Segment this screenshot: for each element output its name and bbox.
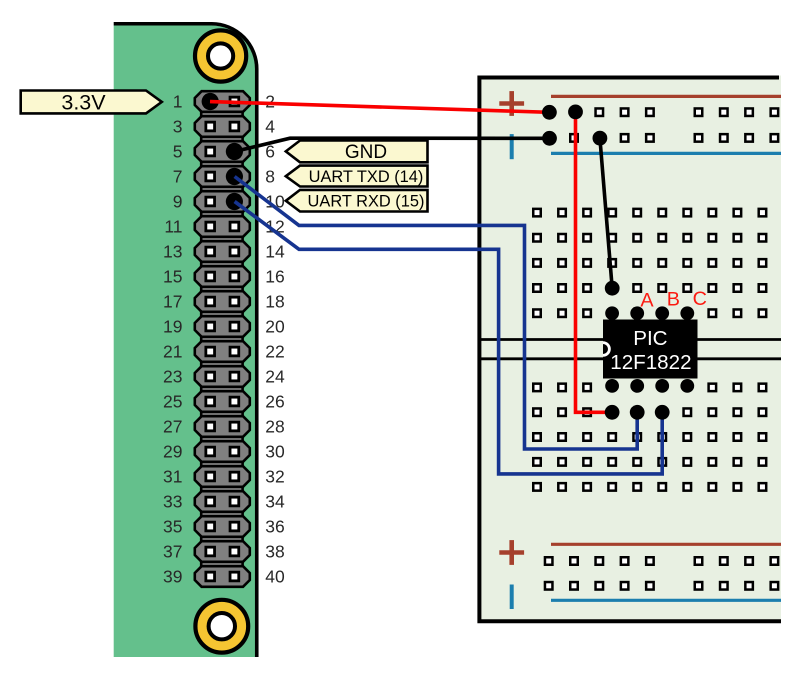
raspberry pi board (114, 25, 257, 657)
svg-text:13: 13 (163, 242, 182, 262)
svg-text:24: 24 (265, 367, 285, 387)
GPIO header row pins 13-14 (195, 241, 250, 262)
GPIO header row pins 37-38 (195, 541, 250, 562)
junction dot blue TXD wire row G (630, 405, 645, 420)
svg-text:1: 1 (173, 92, 183, 112)
GPIO header base strip (201, 95, 242, 582)
wire blue: pi pin10 UART RXD to chip (235, 202, 663, 474)
label flag 3.3V (21, 90, 162, 114)
svg-text:9: 9 (173, 192, 183, 212)
svg-text:C: C (693, 288, 707, 310)
svg-text:22: 22 (265, 342, 284, 362)
svg-text:11: 11 (164, 217, 182, 237)
svg-text:30: 30 (265, 442, 285, 462)
GPIO header row pins 1-2 (195, 91, 250, 112)
svg-text:36: 36 (265, 517, 284, 537)
svg-text:35: 35 (163, 517, 182, 537)
GPIO header row pins 39-40 (195, 566, 250, 587)
header pin 5 (206, 147, 215, 156)
IC chip PIC 12F1822 body (603, 320, 698, 379)
junction dot black jumper top (593, 131, 608, 146)
junction dot black wire at negative rail (542, 131, 557, 146)
GPIO header row pins 9-10 (195, 191, 250, 212)
top negative rail line (551, 152, 781, 155)
header pin 39 (206, 572, 215, 581)
svg-text:16: 16 (265, 267, 284, 287)
header pin 40 (230, 572, 239, 581)
breadboard center divider line lower (479, 357, 781, 360)
GPIO header row pins 15-16 (195, 266, 250, 287)
junction dot red wire at positive rail (542, 105, 557, 120)
header pin 20 (230, 322, 239, 331)
header pin 12 (230, 222, 239, 231)
top rail plus symbol (499, 91, 524, 116)
header pin 29 (206, 447, 215, 456)
svg-text:18: 18 (265, 292, 284, 312)
top positive rail line (551, 95, 781, 98)
wire blue: pi pin8 UART TXD to chip (235, 177, 638, 450)
header pin 23 (206, 372, 215, 381)
svg-text:2: 2 (265, 92, 275, 112)
chip top pin 2 (630, 306, 644, 320)
header pin 32 (230, 472, 239, 481)
header pin 15 (206, 272, 215, 281)
svg-text:15: 15 (163, 267, 182, 287)
label flag UART RXD (15) (286, 190, 428, 212)
breadboard body (477, 76, 781, 623)
svg-text:12F1822: 12F1822 (610, 351, 691, 374)
header pin 4 (230, 122, 239, 131)
header pin 11 (206, 222, 215, 231)
header pin 21 (206, 347, 215, 356)
svg-text:37: 37 (163, 542, 182, 562)
GPIO header row pins 5-6 (195, 141, 250, 162)
svg-text:33: 33 (163, 492, 182, 512)
svg-text:UART TXD (14): UART TXD (14) (309, 168, 424, 186)
junction dot red jumper top (568, 105, 583, 120)
header pin 37 (206, 547, 215, 556)
header pin 35 (206, 522, 215, 531)
svg-text:5: 5 (173, 142, 183, 162)
junction dot black jumper bottom row D (605, 281, 620, 296)
header pin 8 (226, 168, 243, 185)
chip top pin 1 (605, 306, 619, 320)
chip bottom pin 2 (630, 379, 644, 393)
svg-text:29: 29 (163, 442, 182, 462)
svg-text:31: 31 (163, 467, 182, 487)
header pin 18 (230, 297, 239, 306)
header pin 10 (226, 193, 243, 210)
svg-text:3.3V: 3.3V (61, 90, 106, 114)
svg-text:14: 14 (265, 242, 285, 262)
svg-text:40: 40 (265, 567, 285, 587)
wire red: pi pin1 3.3V to top positive rail (210, 102, 549, 113)
header pin 25 (206, 397, 215, 406)
header pin 7 (206, 172, 215, 181)
svg-text:26: 26 (265, 392, 284, 412)
svg-text:4: 4 (265, 117, 275, 137)
header pin 22 (230, 347, 239, 356)
svg-text:B: B (667, 289, 680, 311)
svg-text:A: A (640, 289, 654, 311)
chip bottom pin 3 (655, 379, 669, 393)
junction dot red wire row G (605, 405, 620, 420)
svg-text:19: 19 (163, 317, 182, 337)
svg-text:23: 23 (163, 367, 182, 387)
header pin 19 (206, 322, 215, 331)
mounting hole bottom (195, 600, 248, 653)
breadboard center divider line upper (479, 338, 781, 341)
chip bottom pin 4 (680, 379, 694, 393)
raspberry pi board border (114, 24, 257, 657)
wire black: negative rail jumper down to breadboard row D (600, 138, 612, 288)
header pin 1 (202, 93, 219, 110)
header pin 9 (206, 197, 215, 206)
GPIO header row pins 31-32 (195, 466, 250, 487)
GPIO header row pins 21-22 (195, 341, 250, 362)
header pin 2 (230, 97, 239, 106)
GPIO header row pins 33-34 (195, 491, 250, 512)
chip bottom pin 1 (605, 379, 619, 393)
header pin 36 (230, 522, 239, 531)
chip top pin 3 (655, 306, 669, 320)
header pin 33 (206, 497, 215, 506)
header pin 13 (206, 247, 215, 256)
junction dot blue RXD wire row G (655, 405, 670, 420)
svg-text:8: 8 (265, 167, 275, 187)
svg-text:7: 7 (173, 167, 183, 187)
svg-text:38: 38 (265, 542, 284, 562)
breadboard holes: top power rails (570, 108, 778, 141)
svg-text:32: 32 (265, 467, 284, 487)
svg-text:34: 34 (265, 492, 285, 512)
header pin 26 (230, 397, 239, 406)
breadboard holes: main grid upper half (533, 209, 766, 317)
header pin 17 (206, 297, 215, 306)
svg-text:21: 21 (163, 342, 182, 362)
header pin 38 (230, 547, 239, 556)
GPIO header row pins 25-26 (195, 391, 250, 412)
GPIO header row pins 17-18 (195, 291, 250, 312)
GPIO header row pins 11-12 (195, 216, 250, 237)
header pin 27 (206, 422, 215, 431)
wire black: pi pin6 GND to top negative rail (235, 138, 550, 151)
bottom rail minus symbol (510, 585, 514, 610)
bottom negative rail line (551, 599, 781, 602)
svg-text:UART RXD (15): UART RXD (15) (308, 193, 425, 211)
svg-text:28: 28 (265, 417, 284, 437)
header pin 16 (230, 272, 239, 281)
GPIO header row pins 3-4 (195, 116, 250, 137)
svg-text:39: 39 (163, 567, 182, 587)
chip top pin 4 (680, 306, 694, 320)
wire red: positive rail down to chip row (576, 112, 613, 412)
svg-text:3: 3 (173, 117, 183, 137)
label flag UART TXD (14) (286, 166, 428, 187)
header pin 34 (230, 497, 239, 506)
breadboard holes: bottom power rails (545, 557, 778, 589)
label flag GND (286, 141, 428, 164)
mounting hole top (195, 30, 246, 81)
GPIO header row pins 29-30 (195, 441, 250, 462)
breadboard border (479, 78, 781, 622)
GPIO header row pins 35-36 (195, 516, 250, 537)
header pin 14 (230, 247, 239, 256)
svg-text:25: 25 (163, 392, 182, 412)
top rail minus symbol (510, 134, 514, 159)
svg-text:GND: GND (345, 142, 387, 163)
header pin 31 (206, 472, 215, 481)
GPIO header row pins 7-8 (195, 166, 250, 187)
svg-text:20: 20 (265, 317, 285, 337)
svg-text:17: 17 (163, 292, 182, 312)
header pin 6 (226, 143, 243, 160)
GPIO header row pins 23-24 (195, 366, 250, 387)
header pin 30 (230, 447, 239, 456)
bottom rail plus symbol (499, 540, 524, 565)
bottom positive rail line (551, 543, 781, 546)
GPIO header row pins 27-28 (195, 416, 250, 437)
svg-text:PIC: PIC (633, 327, 667, 350)
header pin 28 (230, 422, 239, 431)
GPIO header row pins 19-20 (195, 316, 250, 337)
header pin 24 (230, 372, 239, 381)
svg-text:27: 27 (163, 417, 182, 437)
breadboard holes: main grid lower half (533, 384, 766, 491)
header pin 3 (206, 122, 215, 131)
